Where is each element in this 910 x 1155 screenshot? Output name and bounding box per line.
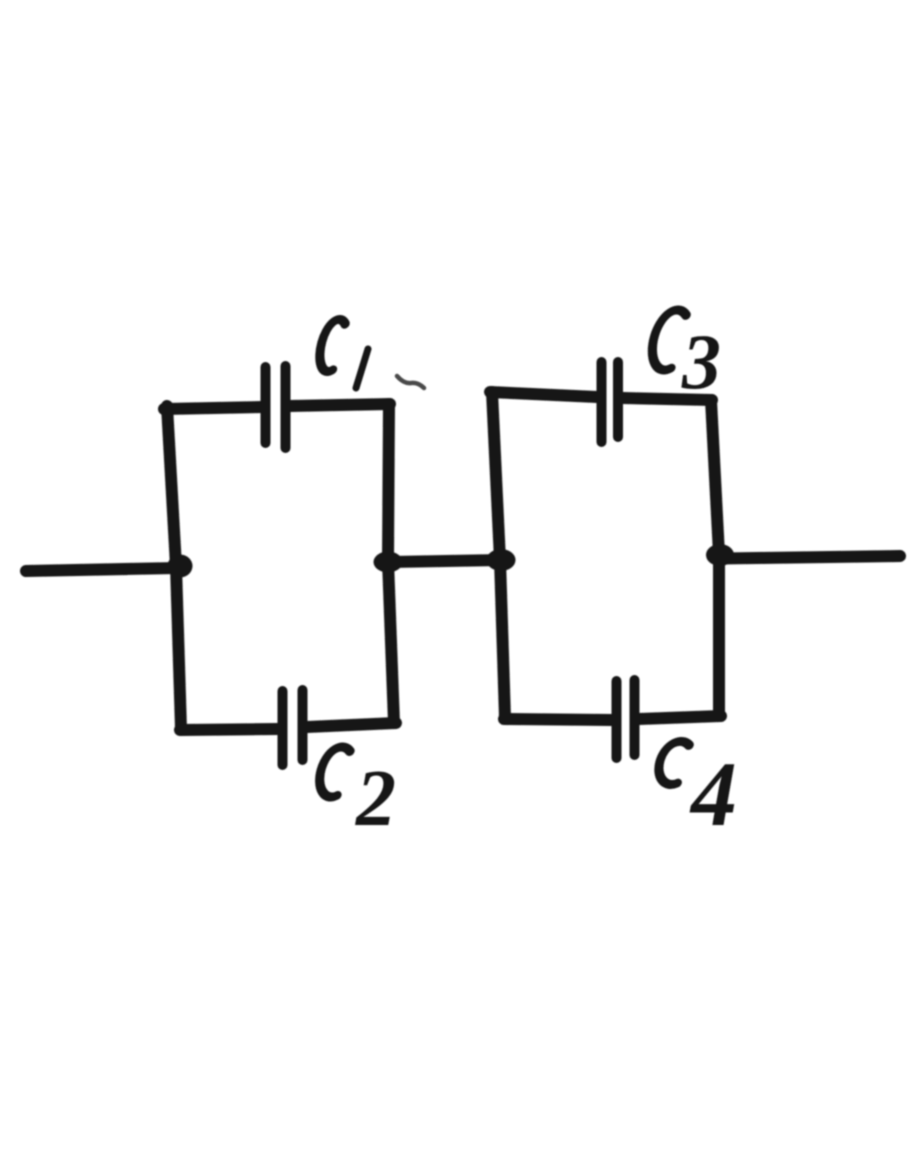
wire: left loop top, left of C1	[164, 407, 262, 409]
wire: left loop top, right of C1	[290, 404, 390, 406]
wire: right loop top, left of C3	[490, 392, 597, 397]
wire: left loop bottom, right of C2	[307, 723, 396, 727]
wire: left loop bottom, left of C2	[180, 729, 278, 730]
capacitor C2 (plates)	[283, 690, 303, 765]
wire: right loop top, right of C3	[623, 398, 712, 400]
svg-text:4: 4	[689, 743, 737, 845]
label C1: letter C	[315, 319, 346, 371]
wire: right loop bottom, right of C4	[639, 716, 721, 719]
wire: left terminal lead	[26, 568, 178, 571]
label C4: letter C	[655, 741, 690, 784]
wire: left loop, left vertical	[167, 406, 181, 729]
wire: right terminal lead	[721, 556, 900, 559]
wire: right loop, right vertical	[711, 400, 719, 716]
label C1: subscript 1	[356, 349, 368, 388]
label C2: letter C	[315, 747, 351, 797]
capacitor C3 (plates)	[602, 362, 619, 442]
node D: right output junction	[706, 544, 734, 566]
stray pencil mark near C1	[397, 376, 424, 388]
svg-text:3: 3	[681, 318, 721, 405]
node A: left input junction	[168, 555, 193, 578]
label C3: letter C	[647, 310, 687, 370]
capacitor C4 (plates)	[617, 680, 635, 758]
wire: left loop, right vertical	[388, 404, 394, 723]
svg-text:2: 2	[355, 755, 396, 843]
node C: right loop input junction	[487, 549, 516, 571]
wire: right loop, left vertical	[492, 392, 505, 718]
wire: middle link between loops	[390, 560, 502, 562]
wire: right loop bottom, left of C4	[504, 719, 611, 720]
node B: left loop output junction	[374, 552, 403, 573]
capacitor C1 (plates)	[266, 366, 286, 448]
